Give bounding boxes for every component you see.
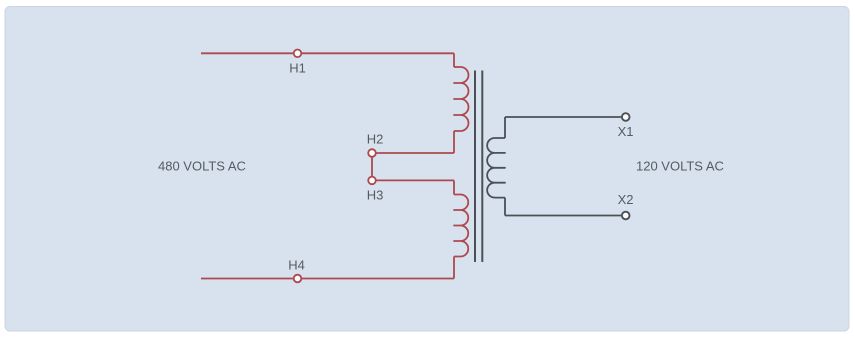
terminal H1 <box>294 50 302 58</box>
terminal H2 <box>368 149 376 157</box>
wire primary bottom drop <box>453 180 455 194</box>
wire primary top drop <box>453 53 455 67</box>
svg-text:480 VOLTS AC: 480 VOLTS AC <box>158 159 246 174</box>
wire jumper H2-H3 <box>371 153 373 180</box>
svg-text:H1: H1 <box>289 60 306 75</box>
wire H4 lead <box>201 278 454 280</box>
wire X2 lead <box>505 215 621 217</box>
svg-text:H3: H3 <box>367 188 384 203</box>
wire secondary top drop <box>504 117 506 138</box>
svg-text:X2: X2 <box>618 192 634 207</box>
terminal H3 <box>368 177 376 185</box>
inductor secondary winding <box>487 138 505 198</box>
wire secondary bottom riser <box>504 198 506 216</box>
wire H2 lead <box>372 152 454 154</box>
svg-text:H2: H2 <box>367 132 384 147</box>
inductor primary top winding <box>454 67 469 131</box>
terminal X2 <box>622 212 630 220</box>
inductor primary bottom winding <box>454 195 468 257</box>
svg-text:X1: X1 <box>618 124 634 139</box>
svg-text:120 VOLTS AC: 120 VOLTS AC <box>636 159 724 174</box>
wire H3 lead <box>372 179 454 181</box>
terminal H4 <box>294 275 302 283</box>
transformer core <box>475 71 482 263</box>
wire H2 riser <box>453 131 455 153</box>
wire X1 lead <box>505 116 621 118</box>
terminal X1 <box>622 113 630 121</box>
wire H1 lead <box>201 52 454 54</box>
wire H4 riser <box>453 257 455 279</box>
svg-text:H4: H4 <box>288 258 305 273</box>
